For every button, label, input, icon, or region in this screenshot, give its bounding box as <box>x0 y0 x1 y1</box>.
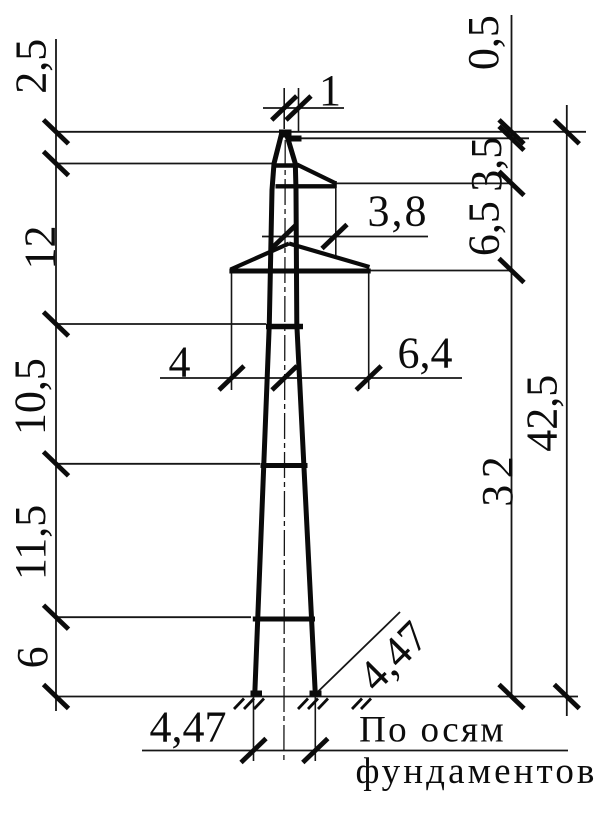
inner right dimension reference line <box>511 15 513 699</box>
dimension line 1 y=108 <box>263 107 344 109</box>
tick left line y=617.2 <box>44 605 69 629</box>
extension line lower crossarm right tip <box>368 270 370 389</box>
extension line for dim 1 left <box>283 88 285 129</box>
right foot <box>310 691 322 697</box>
tick dim 4 left <box>219 366 244 390</box>
top horizontal dimension line y=131.8 <box>56 131 586 133</box>
svg-text:0,5: 0,5 <box>459 15 508 70</box>
extension line right foundation axis <box>314 697 316 761</box>
svg-text:6,5: 6,5 <box>460 201 509 256</box>
extension line left foundation axis <box>253 697 255 761</box>
tower right leg <box>287 134 316 696</box>
tick bottom dim right <box>303 739 328 763</box>
svg-text:1: 1 <box>319 66 341 115</box>
tick left line ground <box>44 685 69 709</box>
tick left line y=324 <box>44 312 69 336</box>
lower crossarm left top chord <box>231 244 290 270</box>
tick dim 1 left <box>272 96 297 120</box>
tick marks (45 degree slashes) <box>44 96 580 763</box>
ground hatching <box>234 699 371 710</box>
upper crossarm tip extension line y=183.4 <box>335 182 512 184</box>
extension line lower crossarm left tip <box>231 272 233 390</box>
tick left line y=463.8 <box>44 452 69 476</box>
svg-text:6,4: 6,4 <box>398 329 453 378</box>
tick dim 6,4 right <box>356 366 381 390</box>
tower left leg <box>255 134 282 696</box>
svg-text:4,47: 4,47 <box>150 703 227 752</box>
tower peak right arm stub <box>288 136 302 142</box>
tower peak cap <box>279 130 292 138</box>
tick dim 3,8 right <box>322 225 347 249</box>
upper crossarm top chord <box>297 165 335 184</box>
svg-text:11,5: 11,5 <box>6 505 55 580</box>
upper crossarm tip vertical <box>333 181 337 188</box>
upper crossarm bottom chord y=186.3 <box>276 184 337 188</box>
tower member y=465.5 <box>261 463 308 468</box>
note text <box>356 710 598 793</box>
outer right dimension reference line <box>566 105 568 716</box>
tower member y=619 <box>253 617 315 622</box>
hatch group left foundation <box>234 699 244 710</box>
tick dim 1 right <box>286 96 311 120</box>
dimension line 3,8 y=236.5 <box>262 236 428 238</box>
extension line for dim 1 right <box>298 88 300 131</box>
tower center axis line <box>284 140 285 760</box>
tick left line y=131.8 <box>44 120 69 144</box>
bottom dimension line 4,47 y=750.5 <box>142 750 568 752</box>
tick dim 4/6,4 centre <box>272 366 297 390</box>
ground line y=696.5 <box>56 696 578 698</box>
svg-text:4,47: 4,47 <box>349 612 438 701</box>
svg-text:3,5: 3,5 <box>462 137 511 192</box>
hatch group right of base <box>352 699 362 710</box>
left foot <box>251 691 263 697</box>
ground wire level line y=138.3 <box>297 137 529 139</box>
tick bottom dim left <box>241 739 266 763</box>
svg-text:2,5: 2,5 <box>7 39 56 94</box>
hatch group right foundation <box>298 699 308 710</box>
tick dim 3,8 left <box>272 225 297 249</box>
svg-text:42,5: 42,5 <box>518 375 567 452</box>
tick inner right y=138.3 <box>499 126 524 150</box>
member extension line y=463.8 <box>56 463 260 465</box>
dimension line 4 / 6,4 y=378 <box>160 377 462 379</box>
svg-text:По осям: По осям <box>359 710 506 751</box>
tick inner right y=270.5 <box>499 259 524 283</box>
extension line from upper crossarm tip <box>335 188 337 256</box>
svg-text:32: 32 <box>473 450 522 507</box>
tick outer right ground <box>554 685 579 709</box>
tick inner right y=183.4 <box>499 171 524 195</box>
svg-text:фундаментов: фундаментов <box>356 751 598 792</box>
tower member y=326.5 <box>266 324 303 329</box>
tower structure <box>229 130 370 697</box>
svg-text:6: 6 <box>8 646 57 668</box>
tick inner right ground <box>499 685 524 709</box>
diagonal leader 4,47 <box>315 612 401 695</box>
lower crossarm right top chord <box>289 244 370 268</box>
member extension line y=617.2 <box>56 616 251 618</box>
tick inner right y=131.8 <box>499 120 524 144</box>
svg-text:3,8: 3,8 <box>368 187 429 236</box>
tick left line y=163.5 <box>44 152 69 176</box>
lower crossarm bottom chord y=271 <box>229 269 370 274</box>
svg-text:12: 12 <box>16 226 65 270</box>
upper crossmember extension line y=163.5 <box>56 163 272 165</box>
tick outer right top <box>554 120 579 144</box>
tower cross member y=165.5 <box>272 163 300 168</box>
left dimension reference line <box>55 39 57 711</box>
lower crossarm tip extension line y=270.5 <box>370 270 512 272</box>
svg-text:4: 4 <box>169 338 191 387</box>
svg-text:10,5: 10,5 <box>6 358 55 435</box>
waist member extension line y=324 <box>56 323 266 325</box>
